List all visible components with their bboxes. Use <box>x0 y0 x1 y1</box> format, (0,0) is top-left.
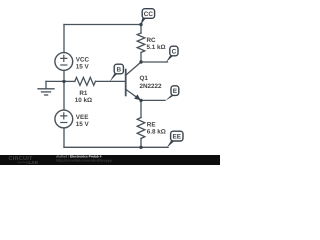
wire collector vertical <box>140 25 142 34</box>
wire bottom rail <box>64 146 168 148</box>
svg-text:10 kΩ: 10 kΩ <box>75 97 92 104</box>
resistor RE <box>137 118 145 139</box>
resistor R1 <box>75 77 96 85</box>
resistor RC <box>137 33 145 53</box>
svg-text:6.8 kΩ: 6.8 kΩ <box>147 128 166 135</box>
svg-text:2N2222: 2N2222 <box>140 83 163 90</box>
svg-text:VEE: VEE <box>76 114 89 121</box>
ground <box>38 81 54 95</box>
voltage source VCC <box>55 53 73 71</box>
flag B <box>110 64 124 82</box>
wire collector node to C flag <box>141 61 168 63</box>
svg-text:E: E <box>173 88 178 95</box>
wire junction to VEE top <box>63 81 65 110</box>
svg-text:5.1 kΩ: 5.1 kΩ <box>147 44 166 51</box>
wire top horizontal <box>64 24 141 26</box>
wire VCC bottom to junction <box>63 71 65 82</box>
svg-text:B: B <box>116 67 121 74</box>
transistor Q1 <box>126 62 141 100</box>
wire emitter node down to RE <box>140 100 142 117</box>
node junction left <box>62 80 65 83</box>
flag E <box>165 86 179 101</box>
node emitter <box>139 99 142 102</box>
flag EE <box>167 131 183 147</box>
svg-text:EE: EE <box>173 134 182 141</box>
node collector <box>139 60 142 63</box>
wire ground branch <box>46 80 64 82</box>
wire RE to bottom rail <box>140 139 142 148</box>
voltage source VEE <box>55 110 73 128</box>
svg-text:〜〜≡LAB: 〜〜≡LAB <box>17 160 38 165</box>
svg-text:15 V: 15 V <box>76 121 90 128</box>
flag CC <box>141 9 155 25</box>
wire R1 to base <box>95 80 125 82</box>
flag C <box>166 46 178 62</box>
svg-text:C: C <box>172 49 177 56</box>
svg-text:CC: CC <box>144 11 154 18</box>
wire RC to collector node <box>140 53 142 63</box>
watermark bar <box>0 155 220 165</box>
svg-text:http;//circuitlab.com/cabcd/5x: http;//circuitlab.com/cabcd/5xxyyg <box>56 159 112 163</box>
wire VEE bottom to bottom rail <box>63 128 65 147</box>
wire left column upper <box>63 25 65 53</box>
svg-text:Q1: Q1 <box>140 75 149 82</box>
node CC <box>139 23 142 26</box>
wire junction to R1 <box>64 80 75 82</box>
node bottom RE <box>139 146 142 149</box>
wire emitter node to E flag <box>141 99 165 101</box>
svg-text:15 V: 15 V <box>76 64 90 71</box>
